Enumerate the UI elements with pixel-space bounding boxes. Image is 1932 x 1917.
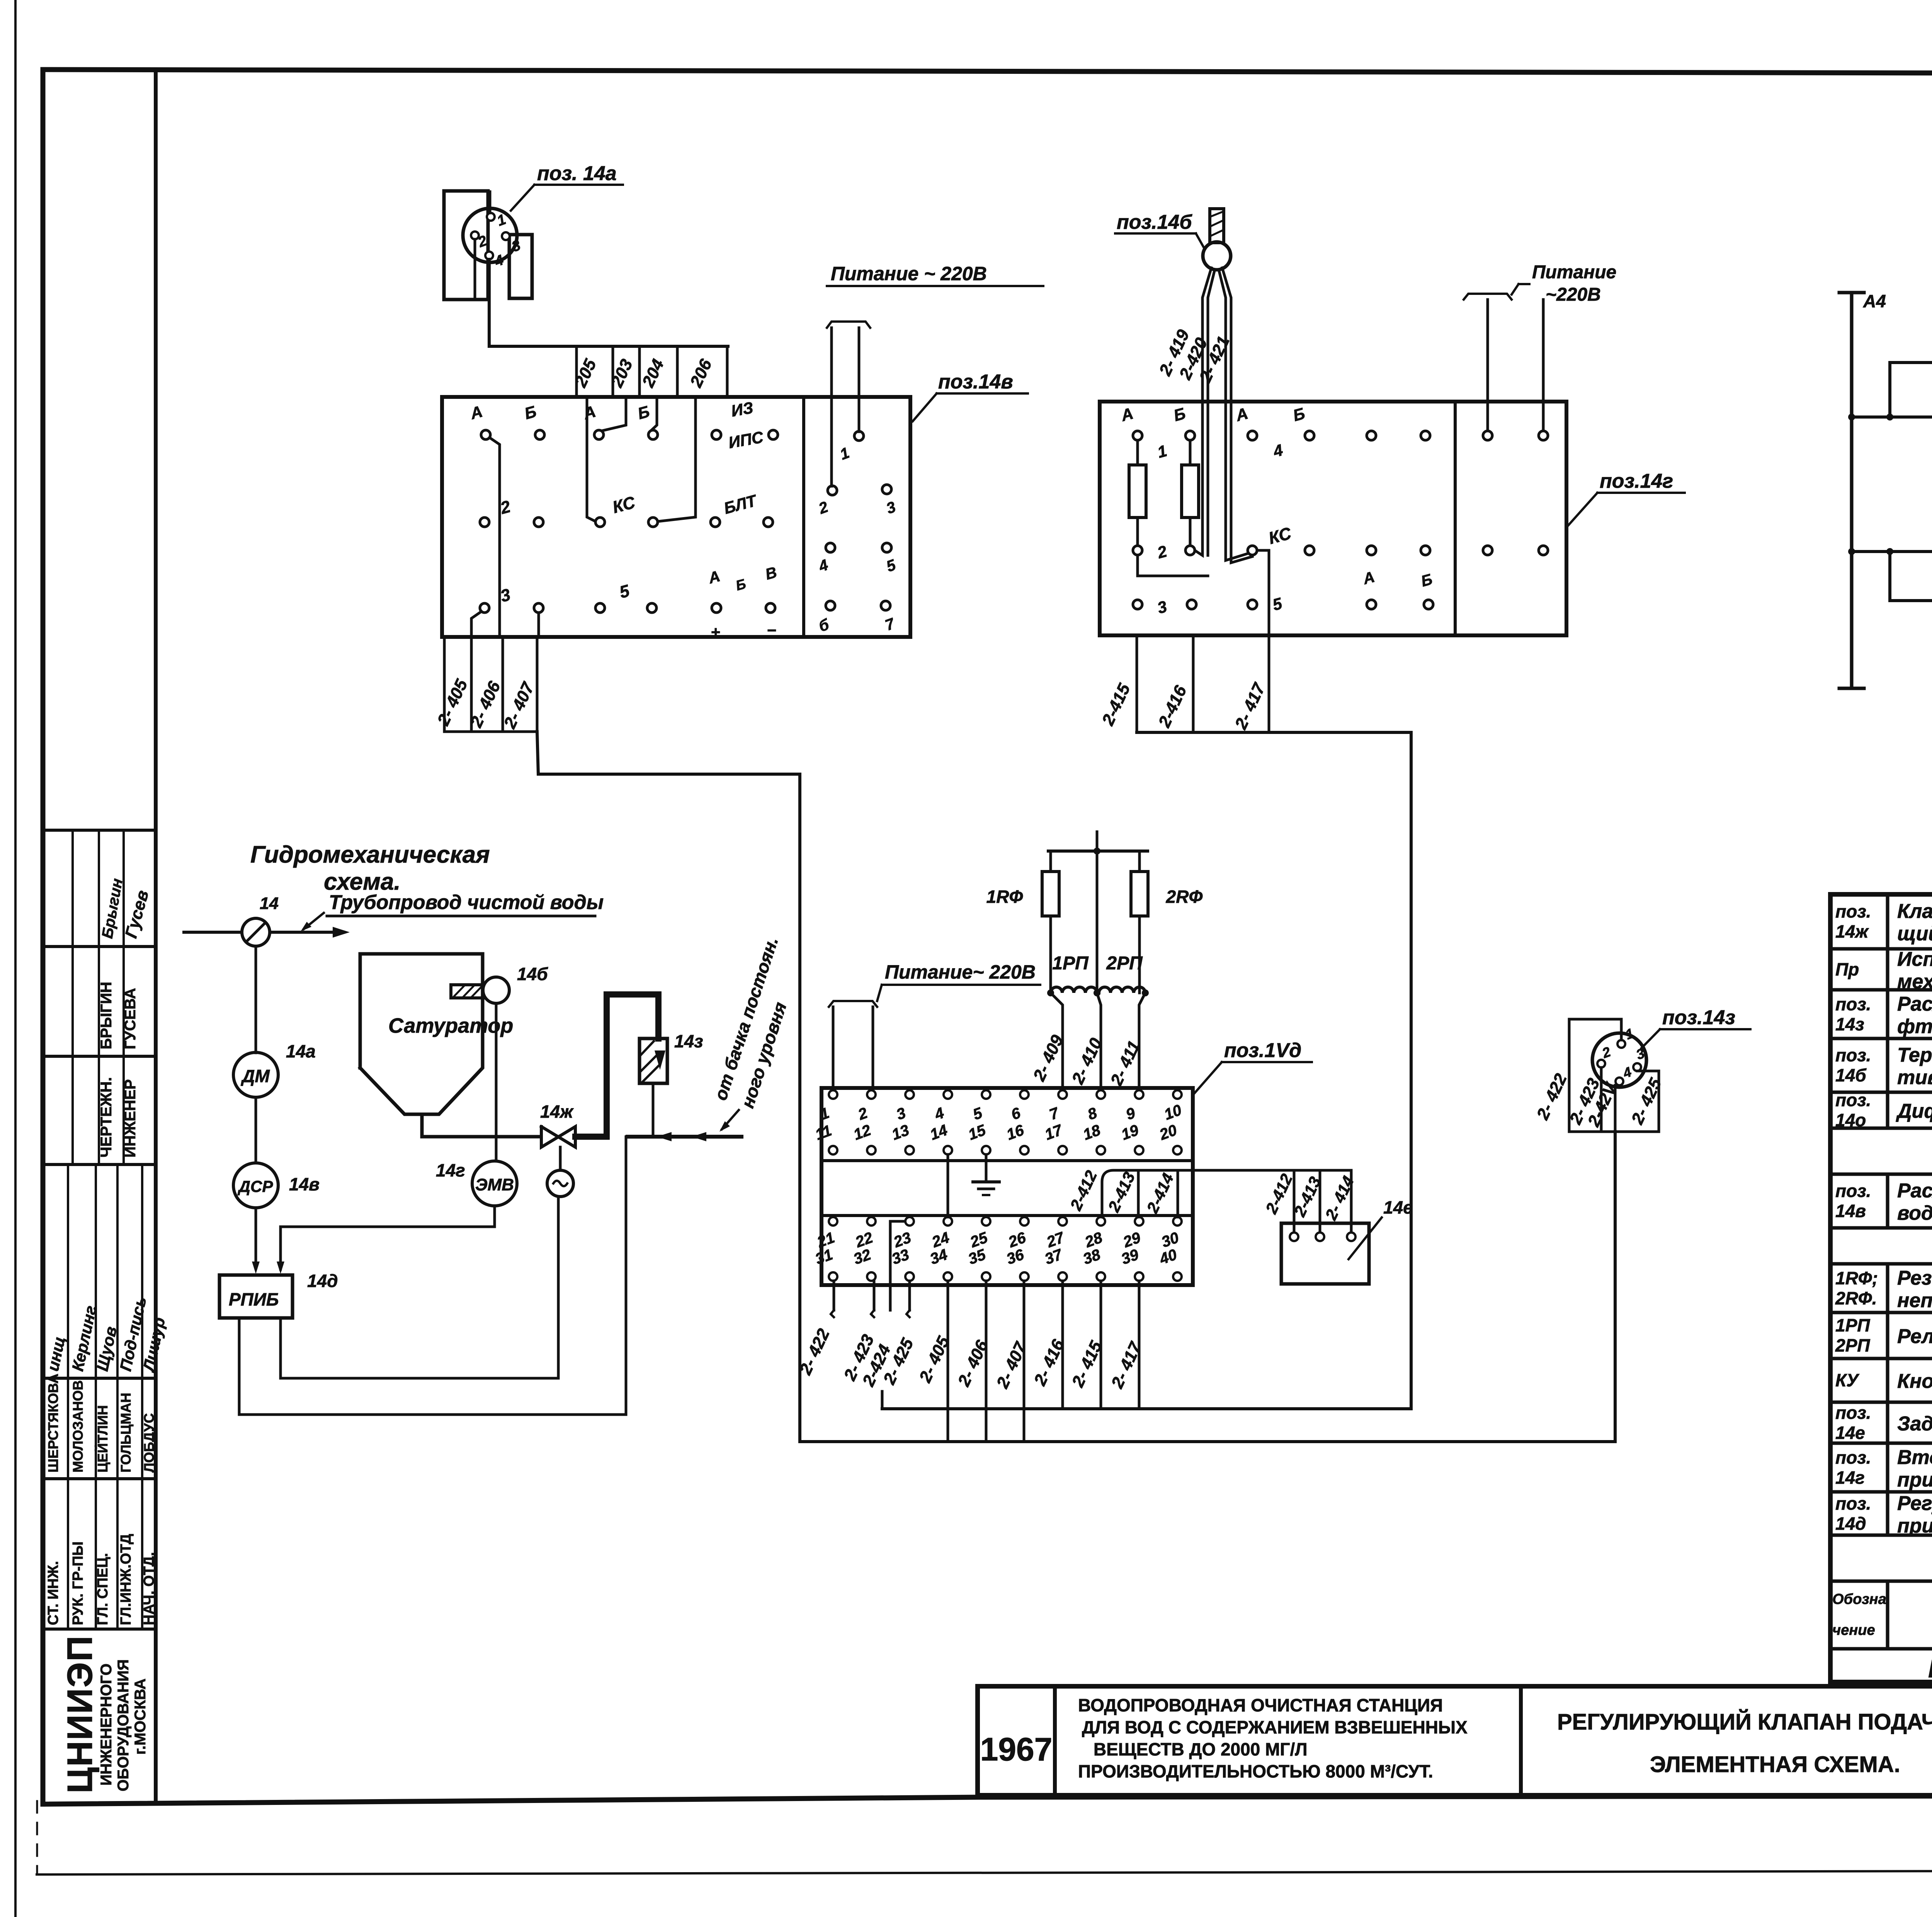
wire solenoid down bbox=[557, 1197, 560, 1378]
svg-text:14а: 14а bbox=[286, 1041, 316, 1061]
left signature table bbox=[43, 829, 156, 832]
svg-text:~220В: ~220В bbox=[1546, 284, 1601, 305]
svg-text:поз.: поз. bbox=[1835, 994, 1871, 1014]
svg-text:поз.14з: поз.14з bbox=[1662, 1006, 1735, 1029]
thermometer 14b on vessel bbox=[451, 985, 484, 998]
svg-text:поз.: поз. bbox=[1835, 1181, 1871, 1201]
connector poz.14z circle bbox=[1592, 1033, 1646, 1087]
14g internal bridge row2 bbox=[1138, 555, 1208, 576]
svg-text:поз.: поз. bbox=[1835, 901, 1871, 921]
wire A4 to Pr terminal 2 bbox=[1852, 415, 1932, 419]
svg-text:Трубопровод чистой воды: Трубопровод чистой воды bbox=[329, 891, 604, 914]
differential manometer DM 14a bbox=[255, 946, 257, 1053]
svg-text:1RФ: 1RФ bbox=[986, 887, 1023, 907]
svg-text:ДМ: ДМ bbox=[240, 1066, 270, 1086]
14v terminals row 3 bbox=[480, 603, 489, 613]
svg-text:14з: 14з bbox=[1835, 1014, 1864, 1034]
svg-text:Клапан регулирую-: Клапан регулирую- bbox=[1897, 900, 1932, 923]
sheet outer scan edge left bbox=[14, 0, 17, 1917]
regulating valve 14zh bbox=[541, 1127, 575, 1147]
svg-text:ВОДОПРОВОДНАЯ ОЧИСТНАЯ СТА: ВОДОПРОВОДНАЯ ОЧИСТНАЯ СТАНЦИЯ bbox=[1078, 1695, 1443, 1715]
svg-text:14б: 14б bbox=[517, 964, 548, 984]
svg-text:ГУСЕВА: ГУСЕВА bbox=[122, 988, 139, 1049]
sensor legs down into 14g bbox=[1195, 268, 1211, 555]
svg-text:14е: 14е bbox=[1835, 1423, 1865, 1443]
svg-text:14о: 14о bbox=[1835, 1110, 1866, 1130]
svg-text:КУ: КУ bbox=[1835, 1370, 1860, 1390]
terminals 1-10 bbox=[829, 1090, 837, 1099]
wire from pin4 to bus bbox=[489, 259, 728, 346]
wire RPIB to solenoid bbox=[281, 1318, 558, 1378]
svg-text:БРЫГИН: БРЫГИН bbox=[98, 982, 115, 1049]
connector wiring channels bbox=[1569, 1019, 1621, 1132]
svg-text:14ж: 14ж bbox=[540, 1102, 574, 1122]
resistor 2RF bbox=[1131, 872, 1148, 916]
wire EMV to RPIB bbox=[281, 1206, 495, 1269]
svg-text:Питание~ 220В: Питание~ 220В bbox=[885, 961, 1036, 983]
svg-text:поз. 14а: поз. 14а bbox=[537, 162, 617, 185]
svg-text:1РП: 1РП bbox=[1052, 953, 1089, 974]
block poz.14g outline bbox=[1100, 402, 1566, 635]
svg-text:поз.14в: поз.14в bbox=[938, 371, 1013, 393]
svg-text:ШЕРСТЯКОВА: ШЕРСТЯКОВА bbox=[45, 1374, 61, 1473]
svg-text:Вторичный: Вторичный bbox=[1897, 1446, 1932, 1469]
svg-text:Расходомер: Расходомер bbox=[1897, 993, 1932, 1015]
svg-text:воды: воды bbox=[1897, 1202, 1932, 1224]
svg-text:ИНЖЕНЕР: ИНЖЕНЕР bbox=[122, 1079, 139, 1158]
svg-text:ГЛ.ИНЖ.ОТД: ГЛ.ИНЖ.ОТД bbox=[118, 1534, 134, 1625]
svg-text:−: − bbox=[767, 621, 777, 639]
svg-text:ДСР: ДСР bbox=[238, 1177, 274, 1195]
14g terminals row 2 bbox=[1133, 546, 1142, 555]
channel wires down to terminals bbox=[587, 397, 595, 521]
svg-text:А4: А4 bbox=[1863, 291, 1886, 311]
svg-text:ЛОБДУС: ЛОБДУС bbox=[141, 1413, 157, 1473]
svg-text:РУК. ГР-ПЫ: РУК. ГР-ПЫ bbox=[70, 1541, 86, 1625]
svg-text:14е: 14е bbox=[1383, 1197, 1413, 1217]
svg-text:ЦЕЙТЛИН: ЦЕЙТЛИН bbox=[94, 1405, 111, 1473]
svg-text:поз.: поз. bbox=[1835, 1493, 1871, 1514]
svg-text:Питание: Питание bbox=[1532, 262, 1616, 283]
svg-text:механизм: механизм bbox=[1897, 970, 1932, 993]
svg-text:фтора: фтора bbox=[1897, 1015, 1932, 1038]
solenoid circle with tilde bbox=[547, 1170, 573, 1197]
svg-text:ЭМВ: ЭМВ bbox=[475, 1175, 514, 1194]
svg-text:ЧЕРТЕЖН.: ЧЕРТЕЖН. bbox=[98, 1077, 115, 1158]
svg-text:Резистор постоянный: Резистор постоянный bbox=[1897, 1267, 1932, 1289]
svg-text:1RФ;: 1RФ; bbox=[1835, 1268, 1878, 1288]
svg-text:поз.14б: поз.14б bbox=[1117, 211, 1192, 233]
wire 14 to 24 bbox=[947, 1154, 949, 1217]
wire stubs 37-39 to bus bbox=[1061, 1281, 1064, 1409]
wire stubs below strip 31-33 bbox=[833, 1281, 835, 1310]
svg-text:непроволочный: непроволочный bbox=[1897, 1289, 1932, 1312]
terminals 21-30 bbox=[829, 1217, 837, 1226]
svg-text:поз.: поз. bbox=[1835, 1447, 1871, 1468]
svg-text:СТ. ИНЖ.: СТ. ИНЖ. bbox=[45, 1561, 61, 1625]
flow meter DSR 14v bbox=[255, 1097, 257, 1163]
RPIB loop wiring bbox=[239, 1137, 626, 1415]
EMV secondary device 14g bbox=[472, 1161, 517, 1206]
left column divider bbox=[154, 70, 158, 1802]
svg-text:поз.1Vд: поз.1Vд bbox=[1224, 1039, 1301, 1062]
svg-text:ЭЛЕМЕНТНАЯ СХЕМА.: ЭЛЕМЕНТНАЯ СХЕМА. bbox=[1650, 1752, 1900, 1777]
wire channels 205 203 204 206 bbox=[575, 346, 578, 397]
svg-text:прибор: прибор bbox=[1897, 1515, 1932, 1537]
thick pipe valve to 14z bbox=[575, 994, 658, 1137]
svg-text:чение: чение bbox=[1832, 1622, 1875, 1638]
svg-text:ОБОРУДОВАНИЯ: ОБОРУДОВАНИЯ bbox=[115, 1659, 132, 1791]
svg-text:+: + bbox=[711, 623, 721, 641]
svg-text:поз.: поз. bbox=[1835, 1090, 1871, 1110]
svg-text:Сатуратор: Сатуратор bbox=[388, 1014, 513, 1037]
svg-text:Перечень: Перечень bbox=[1928, 1654, 1932, 1683]
svg-text:Реле промежуточное: Реле промежуточное bbox=[1897, 1325, 1932, 1348]
svg-text:Питание ~ 220В: Питание ~ 220В bbox=[831, 263, 987, 284]
svg-text:Расходомер: Расходомер bbox=[1897, 1180, 1932, 1202]
ground at terminal 15 bbox=[985, 1154, 988, 1182]
svg-text:ВЕЩЕСТВ ДО 2000 МГ/Л: ВЕЩЕСТВ ДО 2000 МГ/Л bbox=[1094, 1739, 1308, 1759]
svg-text:Кнопка управления: Кнопка управления bbox=[1897, 1370, 1932, 1393]
block poz.14g divider bbox=[1454, 402, 1457, 635]
connector poz.14a body rectangles bbox=[444, 191, 488, 300]
wires 2-412 2-413 2-414 from 28 29 30 to 14e bbox=[1102, 1170, 1351, 1217]
svg-text:14: 14 bbox=[260, 894, 279, 913]
svg-text:2RФ: 2RФ bbox=[1166, 887, 1203, 907]
power bracket wires into 14v bbox=[827, 322, 870, 328]
svg-text:ИЗ: ИЗ bbox=[730, 398, 755, 420]
14v terminals row 2 bbox=[480, 518, 489, 527]
svg-text:1967: 1967 bbox=[980, 1731, 1053, 1767]
push button KU upper bbox=[1890, 363, 1932, 417]
long bottom bus to connector 14z bbox=[1614, 1132, 1617, 1442]
KC hook wire bbox=[1257, 550, 1269, 635]
wire stubs 34-36 to lower bus bbox=[947, 1281, 949, 1442]
svg-text:Исполнительный: Исполнительный bbox=[1897, 948, 1932, 970]
wire bundle 2-405 2-406 2-407 below 14v bbox=[443, 637, 446, 732]
svg-text:поз.14г: поз.14г bbox=[1600, 470, 1673, 492]
svg-text:Гидромеханическая: Гидромеханическая bbox=[250, 841, 490, 868]
svg-text:14в: 14в bbox=[1835, 1201, 1866, 1221]
svg-text:Обозна: Обозна bbox=[1832, 1591, 1886, 1607]
svg-text:14д: 14д bbox=[1835, 1514, 1866, 1534]
sheet outer bottom line bbox=[37, 1870, 1932, 1874]
14v internal wire A-row1 down bbox=[490, 438, 500, 637]
bundle vertical to lower bus bbox=[1410, 732, 1413, 1409]
svg-text:2RФ.: 2RФ. bbox=[1835, 1288, 1877, 1308]
svg-text:ГЛ. СПЕЦ.: ГЛ. СПЕЦ. bbox=[95, 1553, 111, 1625]
middle wire bbox=[1096, 851, 1099, 993]
14v internal wire row3-2 bbox=[537, 613, 540, 637]
supply rail A4 bbox=[1850, 293, 1854, 688]
feed from constant level tank bbox=[652, 1083, 655, 1137]
svg-text:14б: 14б bbox=[1835, 1065, 1867, 1085]
svg-text:ДЛЯ ВОД С СОДЕРЖАНИЕМ ВЗВЕШ: ДЛЯ ВОД С СОДЕРЖАНИЕМ ВЗВЕШЕННЫХ bbox=[1082, 1717, 1468, 1737]
wire from pin2 down bbox=[474, 239, 476, 298]
wire from 23 down bbox=[890, 1221, 905, 1310]
svg-text:14г: 14г bbox=[436, 1160, 465, 1180]
svg-text:РЕГУЛИРУЮЩИЙ КЛАПАН ПОДАЧИ: РЕГУЛИРУЮЩИЙ КЛАПАН ПОДАЧИ ФТОРА. bbox=[1557, 1709, 1932, 1735]
wire A4 to Pr terminal 1 bbox=[1852, 550, 1932, 553]
terminal strip poz.14d outline bbox=[821, 1088, 1193, 1285]
block poz.14v outline bbox=[442, 397, 910, 637]
svg-text:ИНЖЕНЕРНОГО: ИНЖЕНЕРНОГО bbox=[98, 1663, 115, 1786]
svg-text:Дифманометр: Дифманометр bbox=[1896, 1100, 1932, 1122]
svg-text:прибор температуры: прибор температуры bbox=[1897, 1469, 1932, 1491]
svg-text:поз.: поз. bbox=[1835, 1403, 1871, 1423]
14g terminals row 1 bbox=[1133, 431, 1142, 440]
svg-text:14г: 14г bbox=[1835, 1468, 1865, 1488]
svg-text:ЦНИИЭП: ЦНИИЭП bbox=[60, 1635, 100, 1793]
svg-text:тивления: тивления bbox=[1897, 1066, 1932, 1089]
14g terminals row 3 bbox=[1133, 600, 1142, 609]
svg-text:Задатчик: Задатчик bbox=[1897, 1413, 1932, 1435]
wire from pin1 up bbox=[489, 192, 492, 213]
svg-text:г.МОСКВА: г.МОСКВА bbox=[132, 1679, 149, 1755]
svg-text:РПИБ: РПИБ bbox=[229, 1289, 279, 1309]
block poz.14v divider bbox=[802, 397, 805, 637]
connector poz.14a pins 1-4 bbox=[487, 213, 495, 221]
svg-text:1РП: 1РП bbox=[1835, 1315, 1870, 1335]
saturator vessel bbox=[360, 954, 483, 1114]
bundle route to terminal strip bbox=[537, 732, 800, 1442]
rotameter 14z bbox=[639, 1039, 667, 1083]
svg-text:Термометр сопро-: Термометр сопро- bbox=[1897, 1044, 1932, 1066]
svg-text:Пр: Пр bbox=[1835, 959, 1859, 979]
svg-text:14з: 14з bbox=[674, 1031, 703, 1051]
push button KU lower bbox=[1890, 552, 1932, 601]
14v right column terminals bbox=[854, 431, 864, 441]
main drawing frame bbox=[43, 70, 1932, 74]
equipment list table frame bbox=[1830, 894, 1932, 1682]
title block frame bbox=[978, 1686, 1932, 1795]
connector poz.14z pins bbox=[1617, 1040, 1625, 1048]
connector poz.14a circle bbox=[463, 208, 517, 262]
sensor poz.14b (fluorine electrode) bbox=[1210, 209, 1224, 243]
svg-text:2РП: 2РП bbox=[1835, 1335, 1870, 1355]
14v terminals row 1 bbox=[481, 430, 490, 439]
svg-text:НАЧ. ОТД.: НАЧ. ОТД. bbox=[141, 1552, 157, 1625]
lower bus 2 bbox=[800, 1440, 1615, 1443]
14v internal wire row3-1 bbox=[471, 611, 481, 637]
resistor 1RF bbox=[1048, 850, 1148, 853]
svg-text:14д: 14д bbox=[307, 1271, 338, 1291]
svg-text:ГОЛЬЦМАН: ГОЛЬЦМАН bbox=[118, 1393, 134, 1473]
svg-text:14в: 14в bbox=[289, 1174, 320, 1194]
saturator outlet bbox=[422, 1114, 540, 1137]
regulator RPIB 14d bbox=[255, 1208, 257, 1268]
svg-text:поз.: поз. bbox=[1835, 1045, 1871, 1065]
14g resistors bbox=[1129, 465, 1146, 518]
svg-text:14ж: 14ж bbox=[1835, 921, 1869, 941]
svg-text:ПРОИЗВОДИТЕЛЬНОСТЬЮ 8000 М³/: ПРОИЗВОДИТЕЛЬНОСТЬЮ 8000 М³/СУТ. bbox=[1078, 1761, 1433, 1781]
setter unit 14e bbox=[1281, 1223, 1369, 1284]
wires to terminals 7 8 9 bbox=[1051, 993, 1063, 1090]
svg-text:Регулирующий: Регулирующий bbox=[1897, 1492, 1932, 1515]
svg-text:2РП: 2РП bbox=[1106, 953, 1143, 974]
lower bus 1 bbox=[882, 1407, 1411, 1410]
svg-text:щий: щий bbox=[1897, 923, 1932, 945]
wire 14b to EMV bbox=[495, 1003, 498, 1161]
clean water pipe with flow meter 14 bbox=[184, 931, 332, 934]
svg-text:МОЛОЗАНОВ: МОЛОЗАНОВ bbox=[70, 1380, 86, 1473]
wire channels 2-415 2-416 2-417 below 14g bbox=[1136, 635, 1138, 732]
